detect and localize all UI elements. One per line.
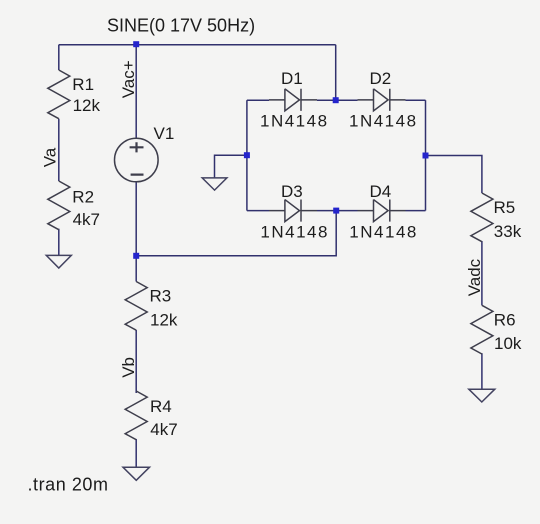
svg-text:R4: R4 — [150, 397, 172, 416]
ground under R2 — [46, 255, 71, 268]
svg-text:4k7: 4k7 — [73, 210, 100, 229]
resistor R6 — [471, 305, 493, 354]
svg-text:33k: 33k — [494, 222, 522, 241]
junction V1 bottom link — [133, 253, 139, 259]
svg-text:V1: V1 — [154, 124, 175, 143]
svg-text:Va: Va — [41, 147, 60, 167]
wire bridge top rail top node to D2 — [336, 99, 358, 101]
wire mid-left stub to ground — [215, 155, 247, 178]
resistor R1 — [48, 70, 70, 119]
wire bridge bottom rail left of D3 — [247, 210, 269, 212]
wire node Va between R1 and R2 — [58, 119, 60, 181]
resistor R3 — [125, 282, 147, 331]
svg-text:Vb: Vb — [119, 357, 138, 378]
svg-text:R2: R2 — [72, 187, 94, 206]
wire node Vadc between R5 and R6 — [481, 241, 483, 305]
wire drop from top rail to bridge top node — [335, 45, 337, 100]
svg-text:R3: R3 — [150, 287, 172, 306]
wire bottom link V1 to bridge bottom node — [136, 211, 336, 256]
wire R6 to ground — [481, 353, 483, 389]
svg-text:D4: D4 — [370, 182, 392, 201]
ground mid bridge — [202, 178, 227, 190]
junction bridge left node — [244, 152, 250, 158]
svg-text:1N4148: 1N4148 — [349, 112, 418, 131]
wire R2 to ground — [58, 229, 60, 256]
junction bridge top node — [333, 97, 339, 103]
resistor R2 — [48, 181, 70, 230]
wire node Vb between R3 and R4 — [135, 330, 137, 393]
diode D2 — [349, 69, 418, 131]
wire left branch top stub to R1 — [58, 45, 60, 70]
junction bridge right node — [423, 153, 429, 159]
svg-text:Vac+: Vac+ — [119, 60, 138, 98]
wire bridge top rail D1 to top node — [317, 99, 336, 101]
ground under R6 — [469, 389, 495, 402]
junction at V1 top rail — [133, 41, 139, 47]
wire bridge right edge — [425, 100, 427, 210]
diode D4 — [349, 182, 418, 241]
wire bridge left edge — [246, 100, 248, 210]
svg-text:10k: 10k — [494, 334, 522, 353]
ground under R4 — [123, 467, 150, 480]
wire top rail from Va branch to bridge drop — [59, 44, 336, 46]
diode D1 — [260, 69, 329, 131]
svg-text:Vadc: Vadc — [465, 258, 484, 296]
wire bridge top rail right of D2 — [406, 99, 426, 101]
wire bridge bottom rail bottom node to D4 — [336, 210, 357, 212]
svg-text:1N4148: 1N4148 — [260, 222, 329, 241]
svg-text:SINE(0 17V 50Hz): SINE(0 17V 50Hz) — [107, 16, 255, 36]
junction bridge bottom node — [333, 208, 339, 214]
svg-text:1N4148: 1N4148 — [349, 222, 418, 241]
svg-text:R5: R5 — [494, 198, 516, 217]
wire R4 to ground — [135, 439, 137, 467]
wire mid-right stub to R5 branch — [426, 156, 482, 194]
resistor R5 — [471, 193, 493, 242]
diode D3 — [260, 182, 329, 241]
svg-text:4k7: 4k7 — [150, 420, 177, 439]
wire bridge bottom rail D3 to bottom node — [317, 210, 336, 212]
svg-text:12k: 12k — [150, 310, 178, 329]
svg-text:.tran 20m: .tran 20m — [28, 475, 109, 495]
wire bridge top rail left of D1 — [247, 99, 269, 101]
svg-text:R6: R6 — [494, 311, 516, 330]
svg-text:D2: D2 — [370, 69, 392, 88]
svg-text:R1: R1 — [72, 75, 94, 94]
svg-text:1N4148: 1N4148 — [260, 112, 329, 131]
svg-text:12k: 12k — [73, 96, 101, 115]
resistor R4 — [125, 391, 147, 440]
wire bridge bottom rail right of D4 — [406, 210, 426, 212]
svg-text:D1: D1 — [281, 69, 303, 88]
svg-text:D3: D3 — [281, 182, 303, 201]
voltage source V1 — [115, 124, 175, 182]
wire V1 bottom to R3 top through junction — [135, 182, 137, 282]
wire V1 top lead — [135, 45, 137, 139]
